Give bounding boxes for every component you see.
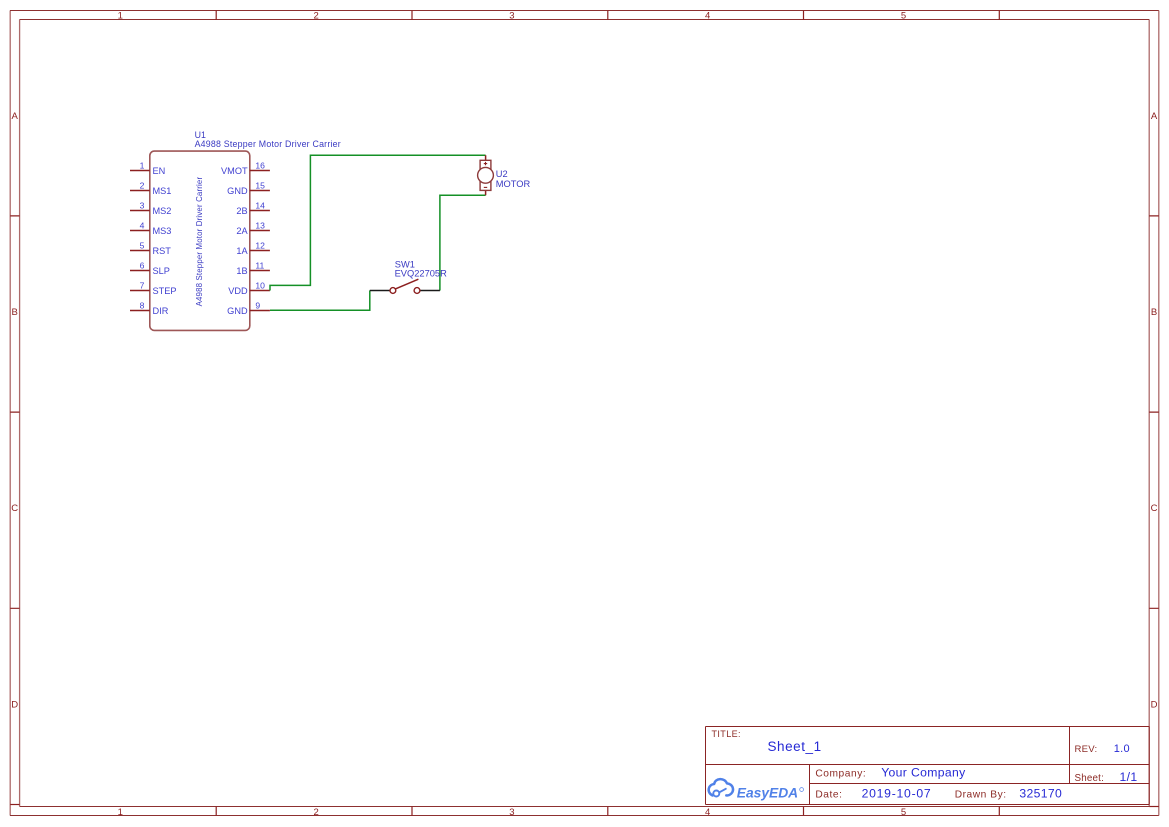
svg-text:6: 6 bbox=[140, 260, 145, 270]
svg-text:SLP: SLP bbox=[153, 266, 170, 276]
svg-text:8: 8 bbox=[140, 300, 145, 310]
svg-text:1: 1 bbox=[118, 11, 123, 22]
svg-text:2: 2 bbox=[313, 807, 318, 818]
svg-text:GND: GND bbox=[227, 186, 248, 196]
svg-text:2019-10-07: 2019-10-07 bbox=[862, 787, 932, 801]
svg-text:Your Company: Your Company bbox=[881, 765, 966, 779]
svg-text:4: 4 bbox=[705, 807, 710, 818]
svg-text:C: C bbox=[11, 503, 18, 514]
svg-text:11: 11 bbox=[255, 260, 264, 270]
svg-text:B: B bbox=[12, 307, 18, 318]
svg-text:REV:: REV: bbox=[1075, 744, 1098, 755]
svg-text:325170: 325170 bbox=[1019, 787, 1062, 801]
svg-text:7: 7 bbox=[140, 280, 145, 290]
svg-text:5: 5 bbox=[901, 11, 906, 22]
svg-text:5: 5 bbox=[901, 807, 906, 818]
svg-text:Sheet:: Sheet: bbox=[1075, 773, 1105, 784]
svg-text:Company:: Company: bbox=[815, 768, 866, 779]
svg-text:D: D bbox=[1151, 700, 1158, 711]
svg-text:3: 3 bbox=[509, 11, 514, 22]
svg-text:2: 2 bbox=[313, 11, 318, 22]
svg-text:DIR: DIR bbox=[153, 306, 169, 316]
svg-text:A: A bbox=[12, 111, 19, 122]
svg-text:9: 9 bbox=[255, 300, 260, 310]
svg-text:EasyEDA: EasyEDA bbox=[737, 786, 798, 801]
svg-text:Drawn By:: Drawn By: bbox=[955, 790, 1007, 801]
svg-text:12: 12 bbox=[255, 240, 265, 250]
svg-text:TITLE:: TITLE: bbox=[712, 729, 741, 739]
svg-text:5: 5 bbox=[140, 240, 145, 250]
svg-text:14: 14 bbox=[255, 200, 265, 210]
svg-text:1/1: 1/1 bbox=[1120, 770, 1138, 784]
svg-text:VMOT: VMOT bbox=[221, 166, 248, 176]
svg-text:MS1: MS1 bbox=[153, 186, 172, 196]
svg-text:VDD: VDD bbox=[228, 286, 248, 296]
svg-text:1: 1 bbox=[140, 160, 145, 170]
svg-text:10: 10 bbox=[255, 280, 265, 290]
svg-text:D: D bbox=[11, 700, 18, 711]
svg-text:1A: 1A bbox=[236, 246, 248, 256]
svg-text:16: 16 bbox=[255, 160, 265, 170]
svg-text:STEP: STEP bbox=[153, 286, 177, 296]
svg-text:A: A bbox=[1151, 111, 1158, 122]
svg-text:4: 4 bbox=[140, 220, 145, 230]
svg-text:13: 13 bbox=[255, 220, 265, 230]
svg-text:Sheet_1: Sheet_1 bbox=[768, 739, 822, 754]
svg-text:EN: EN bbox=[153, 166, 166, 176]
svg-text:15: 15 bbox=[255, 180, 265, 190]
svg-text:A4988 Stepper Motor Driver Car: A4988 Stepper Motor Driver Carrier bbox=[195, 177, 204, 307]
svg-text:B: B bbox=[1151, 307, 1157, 318]
svg-text:MS3: MS3 bbox=[153, 226, 172, 236]
svg-text:GND: GND bbox=[227, 306, 248, 316]
svg-text:3: 3 bbox=[509, 807, 514, 818]
svg-text:MOTOR: MOTOR bbox=[496, 179, 531, 189]
svg-text:4: 4 bbox=[705, 11, 710, 22]
svg-text:A4988 Stepper Motor Driver Car: A4988 Stepper Motor Driver Carrier bbox=[195, 139, 341, 149]
svg-text:MS2: MS2 bbox=[153, 206, 172, 216]
svg-text:1: 1 bbox=[118, 807, 123, 818]
svg-text:1B: 1B bbox=[236, 266, 247, 276]
svg-text:2: 2 bbox=[140, 180, 145, 190]
svg-text:RST: RST bbox=[153, 246, 172, 256]
svg-text:3: 3 bbox=[140, 200, 145, 210]
svg-text:C: C bbox=[1151, 503, 1158, 514]
svg-text:EVQ22705R: EVQ22705R bbox=[395, 269, 447, 279]
svg-text:2B: 2B bbox=[236, 206, 247, 216]
svg-text:2A: 2A bbox=[236, 226, 248, 236]
svg-text:U2: U2 bbox=[496, 169, 508, 179]
svg-text:Date:: Date: bbox=[815, 790, 842, 801]
svg-text:1.0: 1.0 bbox=[1114, 743, 1130, 755]
